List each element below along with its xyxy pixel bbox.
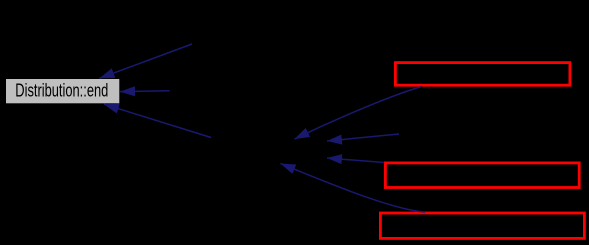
svg-text:Distribution::end: Distribution::end	[15, 80, 108, 101]
